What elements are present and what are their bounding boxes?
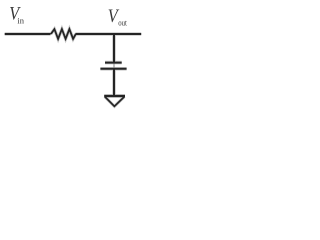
wire halos (scan softness underlay) — [5, 29, 142, 106]
ground bar — [104, 95, 125, 97]
wire Vin to resistor — [5, 33, 51, 35]
svg-text:in: in — [17, 16, 24, 26]
ground triangle slants — [105, 97, 125, 107]
wire capacitor bottom plate to ground — [113, 69, 115, 96]
svg-text:out: out — [118, 18, 128, 28]
resistor R — [51, 29, 76, 39]
node Vout label — [108, 5, 128, 27]
wire node down to capacitor top plate — [113, 34, 115, 63]
capacitor C top plate — [105, 62, 122, 64]
capacitor C bottom plate — [100, 68, 126, 70]
wire faint scan ghost between capacitor plates — [113, 63, 115, 69]
node Vin label — [9, 3, 25, 26]
wire resistor to Vout node and right edge — [75, 33, 141, 35]
